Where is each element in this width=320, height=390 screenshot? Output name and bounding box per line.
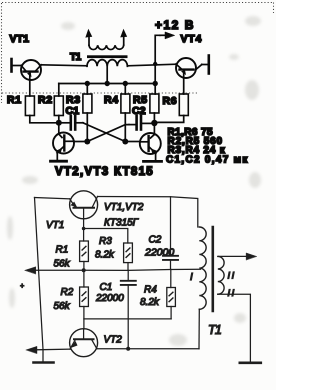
node dot R5/bus xyxy=(153,81,158,86)
svg-text:II: II xyxy=(228,271,236,282)
svg-text:C1: C1 xyxy=(100,282,113,293)
transistor VT2 xyxy=(70,329,98,357)
transformer center tap xyxy=(106,66,108,83)
node dot R3/bus xyxy=(85,81,90,86)
node dot VT2 collector xyxy=(84,139,90,145)
svg-text:R6: R6 xyxy=(163,95,178,107)
svg-text:56k: 56k xyxy=(54,259,71,270)
svg-text:8.2k: 8.2k xyxy=(140,297,160,308)
node dot VT3 collector xyxy=(122,139,128,145)
resistor R1 xyxy=(25,80,56,123)
svg-text:+12 В: +12 В xyxy=(155,18,195,32)
transistor VT4 xyxy=(176,56,209,79)
transformer T1 top winding with antenna arrows xyxy=(86,30,127,50)
svg-text:C1: C1 xyxy=(66,105,80,117)
svg-text:R1: R1 xyxy=(7,94,22,106)
border dotted top xyxy=(2,3,275,104)
svg-text:VT4: VT4 xyxy=(181,33,203,45)
node dot R1/R2 xyxy=(82,268,86,272)
transformer core xyxy=(212,227,215,311)
capacitor C2 xyxy=(163,256,178,270)
node dot VT2 base xyxy=(56,120,62,126)
svg-text:56k: 56k xyxy=(54,301,71,312)
node dot C1/bottom xyxy=(126,347,130,351)
resistor R2 xyxy=(80,270,89,329)
svg-text:КТ315Г: КТ315Г xyxy=(104,218,140,229)
node dot VT1 base xyxy=(82,227,86,231)
branch to C2 xyxy=(170,197,172,256)
transformer T1 secondary xyxy=(218,256,224,294)
base cross wire xyxy=(84,318,171,320)
transformer T1 primary bottom winding xyxy=(87,60,127,67)
svg-text:I: I xyxy=(190,272,193,283)
wire VT1 collector to transformer xyxy=(41,65,87,66)
svg-text:Т1: Т1 xyxy=(208,323,221,337)
svg-text:R2: R2 xyxy=(61,287,74,298)
svg-text:R1: R1 xyxy=(56,245,69,256)
left rail xyxy=(35,198,44,362)
svg-text:C1,C2 0,47 мк: C1,C2 0,47 мк xyxy=(166,155,249,166)
capacitor C2 xyxy=(129,116,153,130)
svg-text:VT1,VT2: VT1,VT2 xyxy=(104,202,144,213)
node dot VT3 base xyxy=(151,120,157,126)
svg-text:VT2,VT3 КТ815: VT2,VT3 КТ815 xyxy=(55,166,154,178)
svg-text:8.2k: 8.2k xyxy=(95,250,115,261)
svg-text:+: + xyxy=(20,283,24,290)
wire transformer to VT4 xyxy=(127,64,176,66)
resistor R4 xyxy=(167,269,176,319)
bottom wire with output arrow xyxy=(26,346,199,353)
node dot R4/bus xyxy=(123,81,128,86)
resistor R3 xyxy=(124,243,133,270)
resistor R3 xyxy=(83,84,92,142)
capacitor C1 xyxy=(59,116,83,130)
svg-text:C2: C2 xyxy=(132,105,146,117)
dotted cut line across resistor row xyxy=(2,92,199,94)
svg-text:R2: R2 xyxy=(38,94,53,106)
+12 V feed wire with arrow xyxy=(155,32,174,94)
ground bottom left xyxy=(34,361,54,364)
value list xyxy=(166,127,249,166)
secondary bottom wire to ground xyxy=(218,294,261,363)
resistor R4 xyxy=(121,84,130,142)
svg-text:R4: R4 xyxy=(104,94,119,106)
svg-text:VT1: VT1 xyxy=(46,220,64,231)
transistor VT1 xyxy=(12,59,42,80)
collector bus xyxy=(59,83,155,85)
resistor R1 xyxy=(80,229,89,271)
svg-text:C2: C2 xyxy=(149,235,162,246)
svg-text:VT2: VT2 xyxy=(104,335,123,346)
top wire xyxy=(35,198,70,199)
collector top wire to transformer xyxy=(98,197,198,228)
capacitor C1 xyxy=(121,270,136,348)
secondary output arrow xyxy=(219,253,257,260)
wire base to R3 xyxy=(84,229,128,244)
transistor VT1 xyxy=(70,191,98,229)
svg-text:VT1: VT1 xyxy=(10,33,30,45)
svg-text:R4: R4 xyxy=(144,285,157,296)
resistor R2 xyxy=(54,84,63,123)
resistor R5 xyxy=(150,94,159,123)
svg-text:22000: 22000 xyxy=(95,293,124,304)
transformer T1 primary xyxy=(199,227,206,349)
svg-text:22000: 22000 xyxy=(144,247,174,259)
resistor R6 xyxy=(156,78,188,122)
svg-text:R3: R3 xyxy=(99,236,112,247)
node dot feed/collector wire xyxy=(153,62,157,66)
cross-coupling wires xyxy=(83,123,129,142)
mid wire with output arrow xyxy=(25,267,201,274)
transformer T1 core xyxy=(87,55,128,58)
svg-text:T1: T1 xyxy=(70,52,82,63)
svg-text:II: II xyxy=(228,288,236,299)
node dot center tap/bus xyxy=(105,81,110,86)
transistor VT3 xyxy=(127,123,162,161)
transistor VT2 xyxy=(51,123,86,161)
